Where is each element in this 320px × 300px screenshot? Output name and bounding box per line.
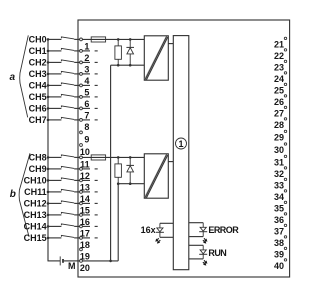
svg-text:4: 4	[84, 76, 89, 86]
wire switch S0 to terminal 1	[74, 38, 79, 40]
converter Ub (galvanic isolation)	[144, 154, 168, 198]
junction dot CH0 on bus	[47, 38, 50, 41]
fuse Fa	[91, 37, 105, 42]
wire CH15 to switch	[48, 237, 61, 239]
wire stub terminal 12	[83, 168, 91, 170]
wire switch S11 to terminal 14	[74, 191, 79, 193]
junction dot rail-diode Da	[129, 64, 132, 67]
svg-text:35: 35	[274, 203, 284, 213]
svg-text:21: 21	[274, 39, 284, 49]
switch S15	[61, 235, 74, 237]
switch S13	[61, 212, 74, 214]
junction dot rail-resistor Rb	[117, 182, 120, 185]
terminal circle 6	[80, 96, 83, 99]
svg-text:b: b	[10, 189, 16, 200]
internal bus bar	[173, 36, 189, 270]
terminal circle 37	[284, 224, 286, 226]
svg-text:8: 8	[84, 122, 89, 132]
channel status LED light arrows	[157, 238, 158, 239]
dash continuation terminal 15	[95, 202, 98, 204]
wire CH8 to switch	[48, 156, 61, 158]
junction dot wire11-resistor Rb	[117, 156, 120, 159]
svg-text:36: 36	[274, 215, 284, 225]
terminal circle 18	[80, 237, 83, 240]
terminal circle 23	[284, 60, 286, 62]
group bracket b	[19, 153, 30, 236]
svg-text:6: 6	[84, 99, 89, 109]
svg-text:34: 34	[274, 192, 284, 202]
terminal circle 14	[80, 191, 83, 194]
svg-text:27: 27	[274, 108, 284, 118]
junction dot CH8 on bus	[47, 156, 50, 159]
junction dot CH10 on bus	[47, 179, 50, 182]
svg-text:30: 30	[274, 145, 284, 155]
terminal circle 29	[284, 130, 286, 132]
wire stub terminal 7	[83, 107, 91, 109]
channel status LED (16x) bracket top	[160, 222, 173, 224]
svg-text:39: 39	[274, 249, 284, 259]
dash continuation terminal 3	[95, 61, 98, 63]
wire stub terminal 2	[83, 50, 91, 52]
terminal circle 30	[284, 143, 286, 145]
dash continuation terminal 17	[95, 225, 98, 227]
terminal circle 32	[284, 167, 286, 169]
wire bus corner to battery	[48, 260, 61, 262]
wire terminal 11 to converter Ub	[83, 156, 145, 158]
wire CH14 to switch	[48, 225, 61, 227]
wire M line inside module	[83, 260, 119, 262]
junction dot CH11 on bus	[47, 191, 50, 194]
terminal circle 19	[80, 248, 83, 251]
terminal circle 33	[284, 178, 286, 180]
svg-text:23: 23	[274, 62, 284, 72]
terminal circle 1	[80, 38, 83, 41]
wire stub terminal 17	[83, 225, 91, 227]
switch S0	[61, 37, 74, 39]
wire terminal 1 to converter Ua	[83, 38, 145, 40]
junction dot CH7 on bus	[47, 119, 50, 122]
svg-text:CH6: CH6	[29, 103, 47, 113]
wire converter Ub output to bus bar	[168, 161, 173, 163]
terminal circle 12	[80, 168, 83, 171]
svg-text:38: 38	[274, 238, 284, 248]
switch S8	[61, 155, 74, 157]
battery B1 short plate	[62, 259, 64, 263]
terminal circle 2	[80, 50, 83, 53]
wire switch S2 to terminal 3	[74, 61, 79, 63]
wire switch S3 to terminal 4	[74, 73, 79, 75]
dash continuation terminal 8	[95, 119, 98, 121]
terminal circle 36	[284, 213, 286, 215]
dash continuation terminal 2	[95, 50, 98, 52]
diode Db (clamp, cathode up)	[129, 157, 131, 165]
wire CH0 to switch	[48, 38, 61, 40]
svg-text:25: 25	[274, 85, 284, 95]
svg-text:20: 20	[80, 263, 90, 273]
wire CH3 to switch	[48, 73, 61, 75]
rail (common return) group a	[111, 64, 145, 66]
dash continuation terminal 12	[95, 168, 98, 170]
wire CH2 to switch	[48, 61, 61, 63]
svg-text:40: 40	[274, 261, 284, 271]
switch S9	[61, 166, 74, 168]
svg-text:M: M	[68, 261, 76, 271]
svg-text:CH13: CH13	[24, 210, 47, 220]
wire stub terminal 15	[83, 202, 91, 204]
junction dot rail-resistor Ra	[117, 64, 120, 67]
wire switch S10 to terminal 13	[74, 179, 79, 181]
wire stub terminal 3	[83, 61, 91, 63]
wire CH12 to switch	[48, 202, 61, 204]
dash continuation terminal 4	[95, 73, 98, 75]
terminal circle 17	[80, 225, 83, 228]
switch S14	[61, 224, 74, 226]
wire CH10 to switch	[48, 179, 61, 181]
group bracket a	[20, 35, 29, 117]
svg-text:1: 1	[178, 139, 183, 149]
junction dot CH15 on bus	[47, 237, 50, 240]
wire CH6 to switch	[48, 107, 61, 109]
svg-text:RUN: RUN	[208, 248, 226, 258]
ERROR LED leads	[202, 223, 204, 237]
wire switch S4 to terminal 5	[74, 84, 79, 86]
dash continuation terminal 14	[95, 191, 98, 193]
wire switch S14 to terminal 17	[74, 225, 79, 227]
svg-text:CH7: CH7	[29, 115, 47, 125]
junction dot rail-diode Db	[129, 182, 132, 185]
junction dot CH13 on bus	[47, 214, 50, 217]
wire switch S8 to terminal 11	[74, 156, 79, 158]
wire rail b drop to M line	[117, 184, 119, 261]
terminal circle 35	[284, 201, 286, 203]
wire CH13 to switch	[48, 214, 61, 216]
RUN LED light arrows	[204, 260, 205, 261]
switch S4	[61, 83, 74, 85]
terminal circle 7	[80, 107, 83, 110]
wire switch S6 to terminal 7	[74, 107, 79, 109]
terminal circle 28	[284, 118, 286, 120]
terminal circle 11	[80, 156, 83, 159]
svg-text:10: 10	[80, 147, 90, 157]
wire CH5 to switch	[48, 96, 61, 98]
svg-text:24: 24	[274, 74, 284, 84]
wire CH4 to switch	[48, 84, 61, 86]
rail (common return) group b	[118, 183, 144, 185]
converter Ua (galvanic isolation)	[144, 36, 168, 80]
terminal circle 24	[284, 72, 286, 74]
RUN LED diode	[200, 250, 206, 254]
channel status LED (16x) bracket bottom	[160, 236, 173, 238]
diode Da (clamp, cathode up)	[129, 39, 131, 47]
svg-text:CH9: CH9	[29, 164, 47, 174]
dash continuation terminal 18	[95, 237, 98, 239]
terminal circle 22	[284, 49, 286, 51]
svg-text:5: 5	[84, 87, 89, 97]
wire switch S13 to terminal 16	[74, 214, 79, 216]
svg-text:37: 37	[274, 226, 284, 236]
svg-text:28: 28	[274, 120, 284, 130]
wire switch S12 to terminal 15	[74, 202, 79, 204]
switch S3	[61, 71, 74, 73]
ERROR LED bracket top	[189, 222, 203, 224]
svg-text:31: 31	[274, 157, 284, 167]
switch S2	[61, 60, 74, 62]
switch S1	[61, 48, 74, 50]
wire converter Ua output to bus bar	[168, 43, 173, 45]
svg-text:CH5: CH5	[29, 92, 47, 102]
junction dot CH9 on bus	[47, 168, 50, 171]
switch S7	[61, 117, 74, 119]
RUN LED leads	[202, 245, 204, 259]
terminal circle 40	[284, 259, 286, 261]
wire stub terminal 8	[83, 119, 91, 121]
svg-text:16x: 16x	[141, 225, 156, 235]
svg-text:a: a	[10, 72, 16, 83]
terminal circle 27	[284, 106, 286, 108]
svg-text:CH15: CH15	[24, 233, 47, 243]
wire battery to terminal 20	[64, 260, 80, 262]
terminal circle 10	[80, 144, 83, 147]
terminal circle 4	[80, 73, 83, 76]
junction dot wire1-resistor Ra	[117, 38, 120, 41]
junction dot rail a drop on M line	[109, 260, 112, 263]
switch S12	[61, 201, 74, 203]
resistor Rb	[117, 157, 119, 164]
switch S10	[61, 178, 74, 180]
switch S6	[61, 106, 74, 108]
svg-text:3: 3	[84, 64, 89, 74]
svg-text:9: 9	[84, 134, 89, 144]
dash continuation terminal 13	[95, 179, 98, 181]
RUN LED bracket bottom	[189, 258, 203, 260]
terminal circle 25	[284, 83, 286, 85]
channel status LED (16x) leads	[159, 223, 161, 237]
svg-text:29: 29	[274, 132, 284, 142]
svg-text:CH12: CH12	[24, 198, 47, 208]
terminal circle 8	[80, 119, 83, 122]
terminal circle 20	[80, 260, 83, 263]
wire rail a drop to M line	[110, 65, 112, 261]
terminal circle 9	[80, 131, 83, 134]
terminal circle 5	[80, 84, 83, 87]
ERROR LED bracket bottom	[189, 236, 203, 238]
dash continuation terminal 6	[95, 96, 98, 98]
svg-text:CH11: CH11	[24, 187, 47, 197]
RUN LED bracket top	[189, 244, 203, 246]
terminal circle 3	[80, 61, 83, 64]
ERROR LED diode	[200, 227, 206, 231]
junction dot CH3 on bus	[47, 73, 50, 76]
svg-text:1: 1	[84, 41, 89, 51]
battery B1 long plate	[59, 256, 61, 265]
wire stub terminal 4	[83, 73, 91, 75]
svg-text:2: 2	[84, 53, 89, 63]
module frame	[78, 20, 290, 277]
wire CH11 to switch	[48, 191, 61, 193]
wire stub terminal 18	[83, 237, 91, 239]
svg-text:26: 26	[274, 97, 284, 107]
junction dot CH14 on bus	[47, 225, 50, 228]
resistor Ra	[117, 39, 119, 46]
svg-text:CH2: CH2	[29, 57, 47, 67]
junction dot wire1-diode Da	[129, 38, 132, 41]
wire stub terminal 13	[83, 179, 91, 181]
svg-text:CH10: CH10	[24, 175, 47, 185]
junction dot CH12 on bus	[47, 202, 50, 205]
svg-text:CH14: CH14	[24, 221, 47, 231]
svg-text:CH8: CH8	[29, 152, 47, 162]
dash continuation terminal 16	[95, 214, 98, 216]
junction dot CH2 on bus	[47, 61, 50, 64]
ERROR LED light arrows	[204, 238, 205, 239]
wire stub terminal 6	[83, 96, 91, 98]
terminal circle 26	[284, 95, 286, 97]
junction dot CH5 on bus	[47, 96, 50, 99]
dash continuation terminal 5	[95, 84, 98, 86]
wire switch S9 to terminal 12	[74, 168, 79, 170]
svg-text:ERROR: ERROR	[208, 225, 239, 235]
bus interface symbol circled 1	[176, 138, 187, 149]
terminal circle 39	[284, 247, 286, 249]
terminal circle 34	[284, 190, 286, 192]
svg-text:CH0: CH0	[29, 34, 47, 44]
fuse Fb	[91, 155, 105, 160]
wire switch S5 to terminal 6	[74, 96, 79, 98]
svg-text:CH4: CH4	[29, 80, 47, 90]
terminal circle 15	[80, 202, 83, 205]
svg-text:CH1: CH1	[29, 46, 47, 56]
wire switch S1 to terminal 2	[74, 50, 79, 52]
terminal circle 31	[284, 155, 286, 157]
wire CH9 to switch	[48, 168, 61, 170]
terminal circle 16	[80, 214, 83, 217]
svg-text:22: 22	[274, 51, 284, 61]
svg-text:7: 7	[84, 110, 89, 120]
junction dot CH1 on bus	[47, 50, 50, 53]
dash continuation terminal 7	[95, 107, 98, 109]
wire CH1 to switch	[48, 50, 61, 52]
svg-text:32: 32	[274, 169, 284, 179]
wire switch S7 to terminal 8	[74, 119, 79, 121]
terminal circle 38	[284, 236, 286, 238]
switch S11	[61, 189, 74, 191]
junction dot CH6 on bus	[47, 107, 50, 110]
wire stub terminal 5	[83, 84, 91, 86]
wire left common bus (switch supply)	[47, 39, 49, 261]
terminal circle 13	[80, 179, 83, 182]
svg-text:CH3: CH3	[29, 69, 47, 79]
svg-text:33: 33	[274, 180, 284, 190]
junction dot wire11-diode Db	[129, 156, 132, 159]
wire CH7 to switch	[48, 119, 61, 121]
switch S5	[61, 94, 74, 96]
wire switch S15 to terminal 18	[74, 237, 79, 239]
wire stub terminal 14	[83, 191, 91, 193]
channel status LED (16x) diode	[157, 228, 163, 232]
terminal circle 21	[284, 37, 286, 39]
junction dot CH4 on bus	[47, 84, 50, 87]
wire stub terminal 16	[83, 214, 91, 216]
